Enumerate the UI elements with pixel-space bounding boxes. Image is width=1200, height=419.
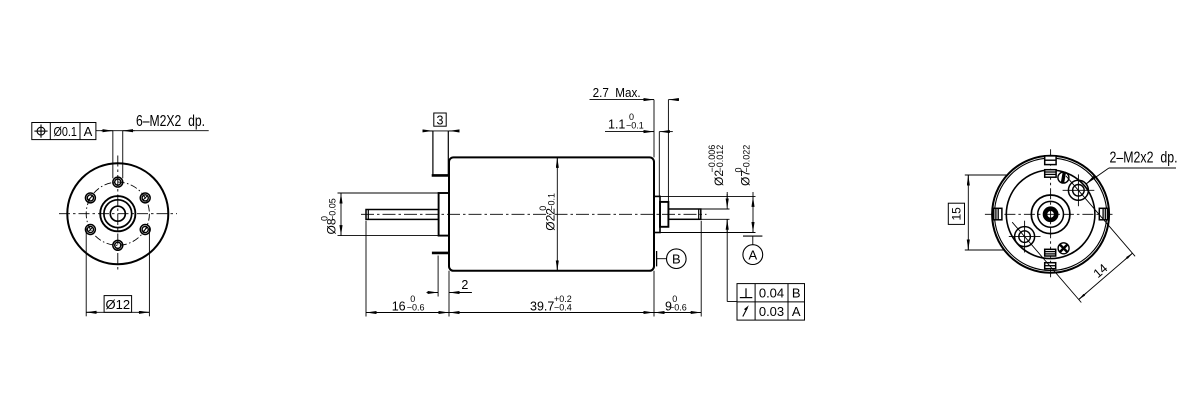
arrows 16 dim [366,312,377,314]
svg-text:−0.6: −0.6 [669,302,687,312]
Ø2 dimension line [726,192,728,302]
upper-right M2 screw hole [1063,174,1095,206]
svg-text:1.1: 1.1 [608,118,625,132]
svg-text:6–M2X2 dp.: 6–M2X2 dp. [136,113,205,130]
runout symbol [743,305,749,316]
Ø8 extension lines [338,192,439,194]
hole lower-right (M2) [140,225,150,235]
svg-text:−0.012: −0.012 [715,145,725,173]
Ø8 label (rotated) [319,198,338,234]
14 label (rotated) [1091,261,1111,281]
svg-text:39.7: 39.7 [530,299,554,313]
GD&T frame leader [727,301,737,303]
svg-text:15: 15 [950,207,964,221]
rear outer circle [992,156,1109,273]
bottom dimension line [366,312,701,314]
front view vertical centerline [117,156,119,273]
perpendicularity symbol [740,288,753,297]
dimension 14 line [1079,253,1133,299]
dimension 15 line [967,175,969,250]
svg-text:−0.6: −0.6 [407,302,425,312]
svg-text:16: 16 [392,299,406,313]
text 39.7 +0.2 -0.4 [530,294,572,313]
svg-text:0.04: 0.04 [759,286,784,301]
svg-text:Ø0.1: Ø0.1 [53,125,77,139]
svg-text:−0.022: −0.022 [742,145,752,173]
right shaft end face line [698,209,700,219]
svg-text:2–M2x2 dp.: 2–M2x2 dp. [1110,149,1178,166]
Ø12 boxed label [104,296,132,313]
Ø2 extension lines (right shaft) [701,208,730,210]
Ø22 dimension line [556,157,558,270]
svg-text:0.03: 0.03 [759,304,784,319]
Ø7 extension lines [654,195,756,197]
shaft washer/spacer [660,202,668,227]
svg-text:A: A [748,247,757,262]
hub circle middle [104,200,132,228]
Ø8 dimension line with arrows [340,193,342,236]
lower-left M2 screw hole [1009,221,1041,253]
svg-text:B: B [672,251,681,266]
upper terminal (slotted) [1058,172,1069,183]
svg-text:2.7 Max.: 2.7 Max. [593,85,641,100]
right crimp tab [1099,208,1107,220]
motor body (can) [449,157,654,270]
text 9 -0.6 [665,294,687,313]
svg-text:−0.1: −0.1 [626,121,644,131]
top mounting tab [432,131,449,176]
svg-text:A: A [792,304,801,319]
dimension 14 extension lines [1012,222,1081,302]
hole upper-left (M2) [85,193,95,203]
Ø7 tolerance label (rotated) [733,145,752,186]
2.7 Max dimension [590,85,680,202]
hole bottom (M2) [113,240,123,250]
shaft centerline [361,213,707,215]
arrows 39.7 dim [449,312,460,314]
dimension 2 (boss protrusion) [427,256,472,297]
bolt circle (dash-dot) [86,182,149,245]
extension lines from top hole to leader [112,131,114,179]
left bearing boss (Ø8) [439,193,449,236]
svg-text:A: A [84,124,93,139]
left crimp tab [994,208,1002,220]
front view horizontal centerline [59,213,177,215]
hub shaft bore [110,206,125,221]
datum B symbol [657,249,687,269]
arrows 9 dim [654,312,665,314]
hole lower-left (M2) [85,225,95,235]
feature control frame (position Ø0.1 A) [32,123,96,140]
svg-text:3: 3 [437,113,444,127]
svg-text:−0.4: −0.4 [554,302,572,312]
position symbol [34,125,47,138]
dimension 3 (tab width) [423,113,459,131]
right shaft (Ø2) [668,209,700,219]
dimension 15 extension lines [965,174,1008,176]
svg-text:Ø12: Ø12 [106,297,131,312]
right end cap boss (Ø7) [654,196,660,232]
rear end-cap inner circle [1006,170,1095,259]
Ø7 dimension line [752,192,754,233]
Ø2 tolerance label (rotated) [707,145,726,186]
leader 2-M2x2 dp. [1086,149,1177,184]
hole upper-right (M2) [140,193,150,203]
bottom crimp tab [1045,249,1056,268]
1.1 -0.1 dimension [605,112,673,196]
GD&T feature control frames [737,284,805,321]
leader line 6-M2X2 [96,130,209,132]
svg-text:−0.1: −0.1 [546,193,556,211]
left shaft (Ø2) [366,210,439,220]
svg-text:−0.05: −0.05 [328,198,338,221]
rear hub circle outer [1031,195,1070,234]
hole top (M2) [113,177,123,187]
text 16 -0.6 [392,294,425,313]
Ø22 label (rotated) [538,193,557,231]
front view outer circle [67,163,168,264]
rear hub circle middle [1038,201,1064,227]
rear bearing dark ring [1045,209,1056,220]
Ø12 extension lines [85,228,87,316]
left shaft end face line [367,210,369,220]
bottom extension lines (middle view) [365,221,367,317]
lower terminal (cross) [1058,243,1069,254]
rear outer circle inner line [994,158,1106,270]
top crimp tab [1045,156,1056,177]
rear horizontal centerline [985,213,1113,215]
bottom terminal tab [432,252,449,255]
15 boxed label (rotated) [948,203,964,224]
hub circle outer [100,196,135,231]
datum A symbol [743,236,763,264]
Ø12 dimension line [86,311,149,313]
svg-text:B: B [792,286,801,301]
svg-text:2: 2 [461,278,468,292]
rear vertical centerline [1050,149,1052,279]
